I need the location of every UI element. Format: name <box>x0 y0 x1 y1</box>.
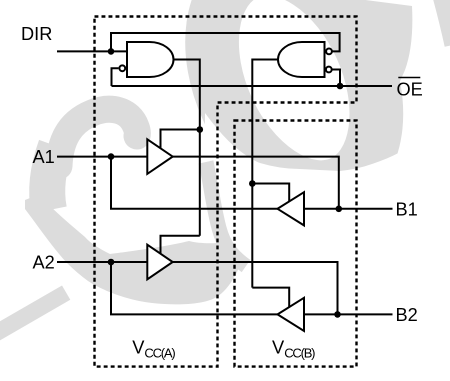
svg-text:B1: B1 <box>396 199 418 219</box>
bubble gate2 top input <box>326 49 332 55</box>
wire B2 enable <box>252 288 289 307</box>
svg-text:B2: B2 <box>396 305 418 325</box>
svg-text:A2: A2 <box>33 252 55 272</box>
buffer B1 <box>278 192 305 225</box>
box VCC(A) + control <box>95 17 357 367</box>
wire A2 enable <box>161 236 200 254</box>
buffer A2 <box>147 245 172 280</box>
junction dot B-enable <box>249 180 256 187</box>
svg-text:A1: A1 <box>33 147 55 167</box>
wire B2 input <box>304 313 393 315</box>
buffer A1 <box>147 139 172 174</box>
wire DIR to gate2 top (over the top) <box>111 33 340 51</box>
wire B1 buffer output to A1 <box>111 157 278 209</box>
wire A1 enable <box>161 130 200 149</box>
and gate U1A <box>127 42 174 77</box>
junction dot A-enable <box>197 126 204 133</box>
junction dot B1 <box>336 206 343 213</box>
wire A2 input <box>57 261 147 263</box>
wire B2 buffer output to A2 <box>111 262 278 314</box>
wire gate1 inverted input to OE <box>112 68 119 86</box>
wire A2 buffer output to B2 <box>173 262 338 314</box>
bubble gate2 bottom input <box>326 67 332 73</box>
wire A1 buffer output to B1 <box>173 157 339 209</box>
buffer B2 <box>278 298 305 331</box>
wire OE line <box>112 85 393 87</box>
and gate U1B (mirrored) <box>278 42 325 77</box>
wire gate2 output <box>252 60 278 288</box>
junction dot A2 <box>108 259 115 266</box>
svg-text:OE: OE <box>397 79 423 99</box>
dashed power domain boxes <box>95 17 357 367</box>
wire gate2 bottom bubble to OE <box>332 70 340 87</box>
junction dot B2 <box>334 311 341 318</box>
bubble gate1 input <box>119 65 125 71</box>
wire A1 input <box>57 156 147 158</box>
wire B1 input <box>304 208 393 210</box>
junction dot DIR <box>108 48 115 55</box>
box VCC(B) <box>235 121 357 367</box>
svg-text:DIR: DIR <box>21 24 52 44</box>
junction dot OE <box>337 83 344 90</box>
wire DIR input <box>57 50 127 52</box>
junction dot A1 <box>108 153 115 160</box>
wire B1 enable <box>252 184 289 203</box>
wire gate1 output <box>174 60 200 236</box>
